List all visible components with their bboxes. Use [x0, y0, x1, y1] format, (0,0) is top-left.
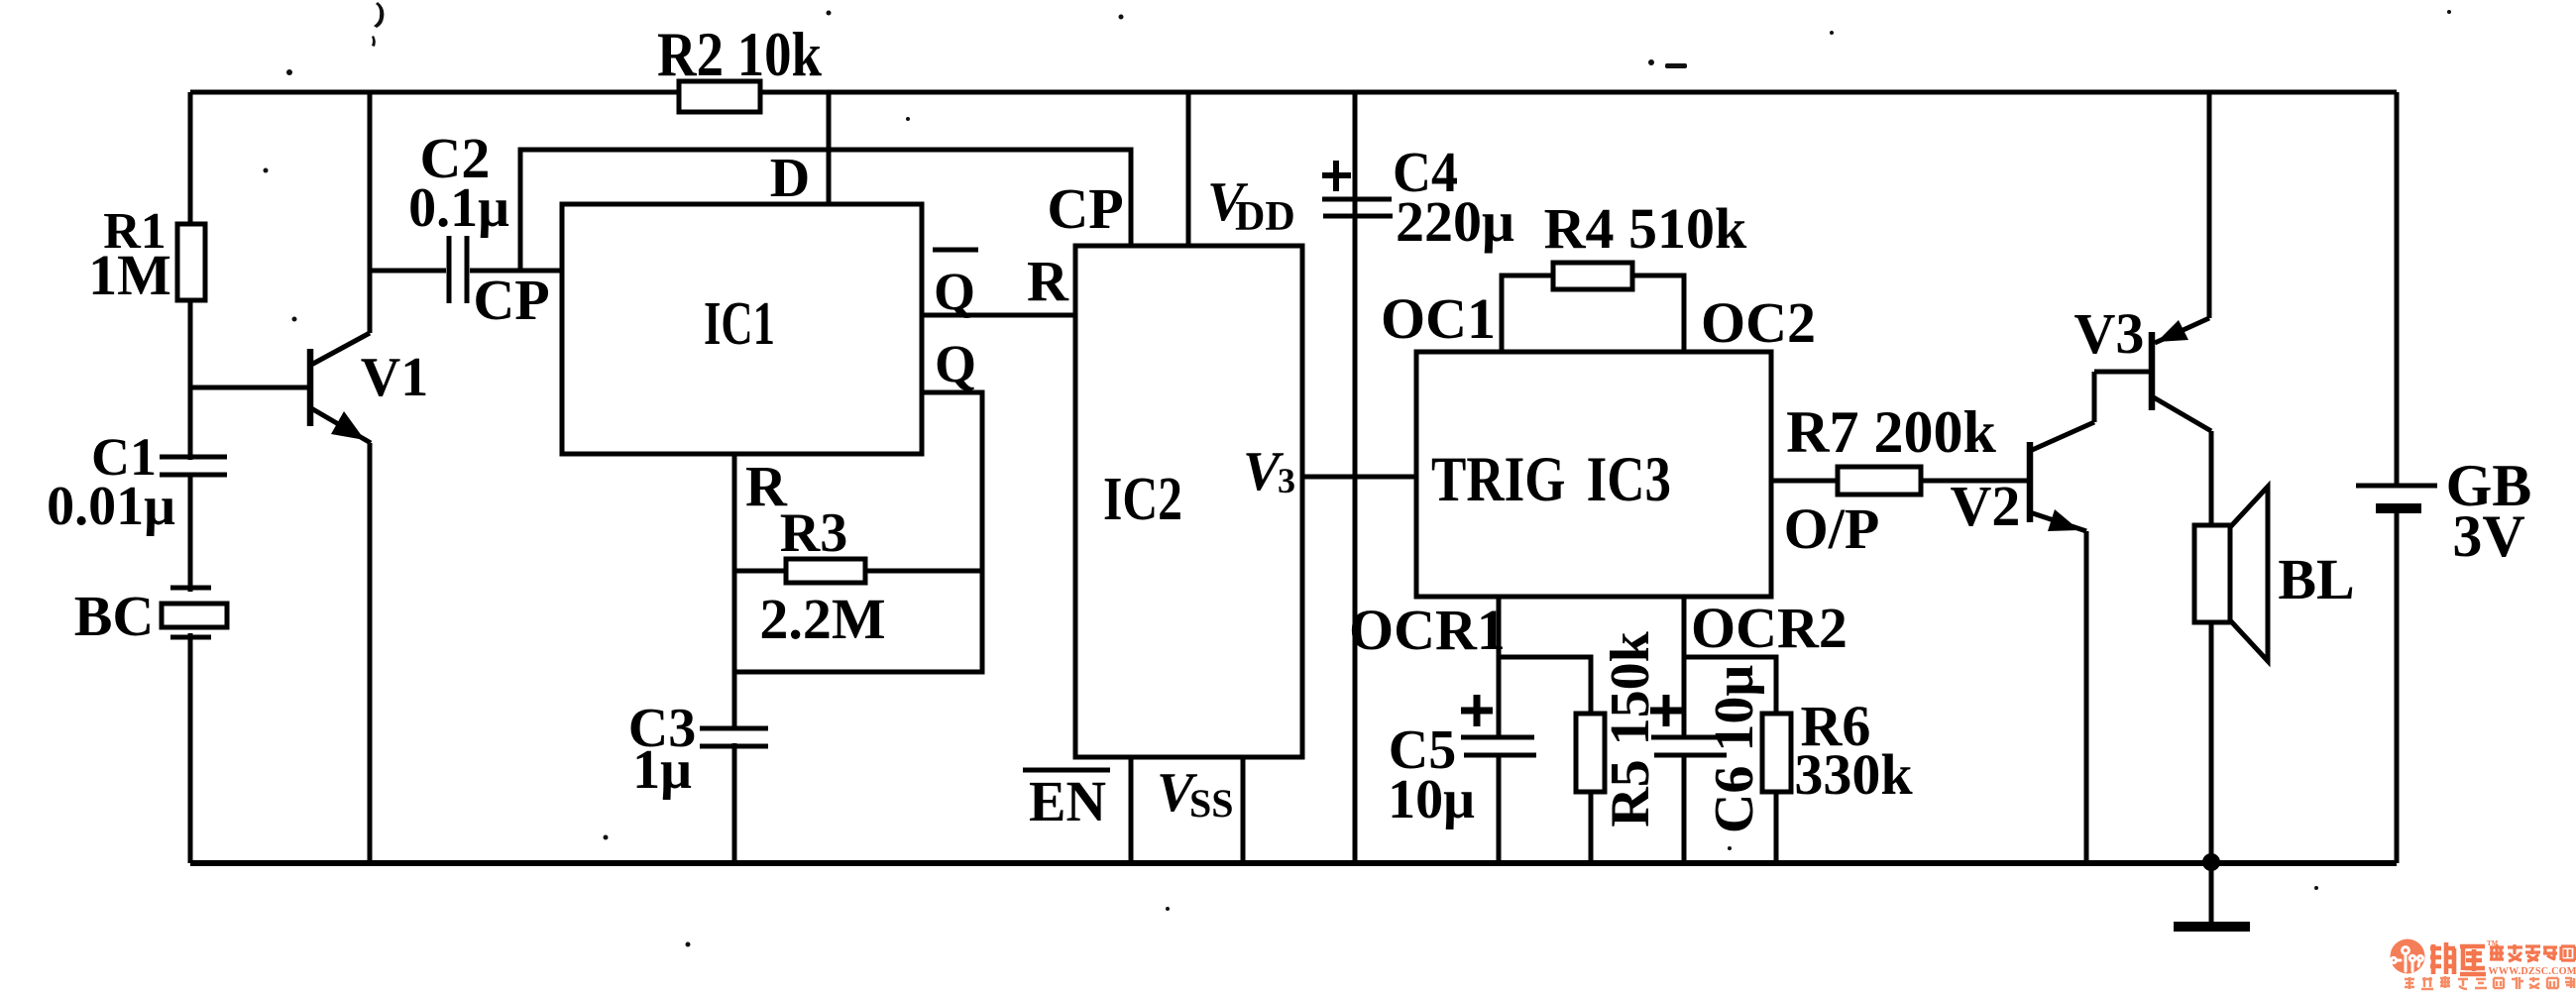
svg-text:R7 200k: R7 200k: [1786, 399, 1996, 465]
svg-text:CP: CP: [473, 268, 549, 332]
speaker BL: [2194, 487, 2355, 863]
resistor R5: [1499, 630, 1661, 863]
op-amp U IC2: [1075, 246, 1302, 757]
watermark logo: [2391, 939, 2425, 974]
wire bottom ground rail: [190, 860, 2397, 866]
resistor R2: [657, 19, 822, 112]
node VDD label: [1207, 171, 1295, 240]
svg-text:3: 3: [1278, 461, 1295, 500]
svg-text:OCR1: OCR1: [1349, 598, 1506, 662]
capacitor C3: [628, 672, 768, 863]
svg-text:D: D: [770, 148, 810, 209]
svg-text:0.01μ: 0.01μ: [47, 476, 175, 537]
capacitor C4: [1322, 92, 1514, 863]
svg-text:OC2: OC2: [1701, 290, 1816, 355]
svg-text:2.2M: 2.2M: [759, 587, 885, 651]
resistor R1: [88, 203, 205, 307]
op-amp U IC3: [1416, 352, 1771, 597]
resistor R3: [734, 502, 982, 651]
watermark brand glyphs: [2430, 942, 2486, 974]
wire V3 out to IC3: [1302, 475, 1416, 480]
wire CP feed to IC2: [520, 150, 1131, 271]
node EN label: [1023, 769, 1110, 833]
svg-text:V1: V1: [361, 347, 428, 408]
svg-text:R3: R3: [780, 502, 847, 564]
svg-text:R5 150k: R5 150k: [1600, 630, 1661, 827]
resistor R4: [1502, 196, 1747, 352]
svg-text:1μ: 1μ: [632, 739, 692, 801]
wire Qbar to R of IC2: [922, 249, 1075, 321]
svg-text:R2 10k: R2 10k: [657, 19, 822, 89]
svg-text:OC1: OC1: [1381, 286, 1496, 351]
wire D pin: [827, 92, 832, 204]
op-amp U IC1: [562, 204, 922, 454]
ground: [2174, 863, 2250, 927]
wire Q loop with R3: [734, 334, 982, 672]
transistor V2: [1951, 372, 2094, 863]
watermark slogan glyphs: [2405, 976, 2575, 989]
wire VDD: [1186, 92, 1191, 246]
svg-text:TM: TM: [2487, 939, 2499, 947]
transistor V1: [190, 92, 428, 863]
svg-text:BL: BL: [2278, 547, 2354, 611]
svg-text:V3: V3: [2074, 301, 2145, 366]
svg-text:V2: V2: [1951, 474, 2021, 538]
svg-text:10μ: 10μ: [1388, 769, 1475, 830]
transistor V3: [2074, 92, 2211, 525]
svg-text:EN: EN: [1029, 769, 1106, 833]
resistor R7: [1771, 399, 2030, 561]
svg-text:Q: Q: [934, 262, 975, 321]
svg-text:BC: BC: [74, 584, 155, 648]
svg-text:CP: CP: [1047, 176, 1123, 241]
svg-text:R4 510k: R4 510k: [1544, 196, 1747, 261]
crystal BC: [74, 584, 227, 648]
svg-text:220μ: 220μ: [1396, 189, 1514, 254]
svg-text:WWW.DZSC.COM: WWW.DZSC.COM: [2488, 966, 2576, 977]
svg-text:O/P: O/P: [1784, 496, 1880, 561]
wire right rail: [2395, 92, 2400, 863]
capacitor C1: [47, 427, 227, 537]
wire OCR2 / capacitor C6: [1650, 596, 1848, 863]
svg-text:330k: 330k: [1794, 742, 1913, 807]
svg-text:TRIG IC3: TRIG IC3: [1431, 444, 1671, 515]
capacitor C2: [370, 126, 562, 332]
node junction dot: [2202, 853, 2220, 871]
svg-text:Q: Q: [935, 334, 976, 393]
wire OCR1 / capacitor C5: [1349, 597, 1536, 863]
svg-text:OCR2: OCR2: [1691, 596, 1848, 660]
wire top supply rail: [190, 90, 2397, 95]
wire EN pin: [1129, 757, 1134, 863]
wire left rail: [188, 92, 193, 863]
svg-text:R: R: [1027, 249, 1069, 313]
node V3 output label: [1243, 441, 1295, 502]
svg-text:SS: SS: [1189, 781, 1234, 826]
svg-text:C6 10μ: C6 10μ: [1704, 665, 1765, 833]
node VSS label: [1157, 762, 1234, 826]
svg-text:1M: 1M: [88, 243, 171, 307]
resistor R6: [1684, 657, 1913, 863]
svg-text:0.1μ: 0.1μ: [408, 177, 509, 239]
battery GB: [2356, 453, 2531, 569]
svg-text:IC2: IC2: [1103, 466, 1182, 533]
wire VSS pin: [1241, 757, 1246, 863]
svg-text:DD: DD: [1235, 194, 1295, 240]
svg-text:3V: 3V: [2452, 503, 2524, 569]
svg-text:IC1: IC1: [704, 290, 775, 358]
